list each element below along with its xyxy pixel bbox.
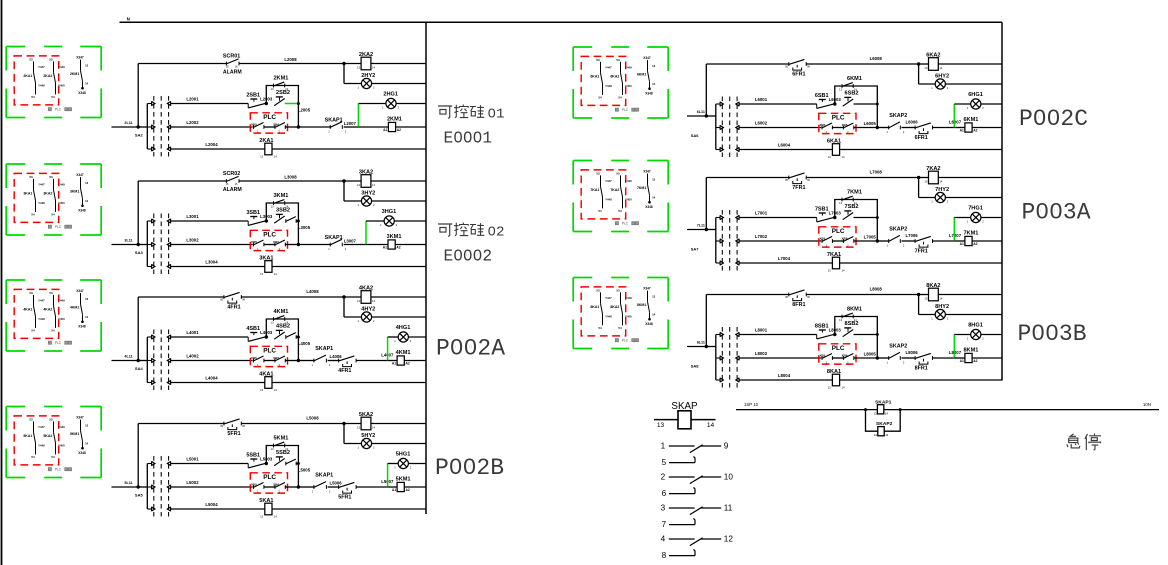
- wire HY branch horizontal: [344, 200, 361, 202]
- lamp 4HY2 (alarm indicator): [361, 312, 371, 322]
- svg-text:Y447: Y447: [605, 66, 612, 70]
- contact 4FR1 row A (thermal NC): [224, 292, 241, 303]
- wire coil 4KM1 to bus: [404, 360, 426, 362]
- svg-text:X348: X348: [78, 325, 86, 329]
- wire SKAP1 to lamp node: [344, 126, 359, 128]
- svg-text:14: 14: [939, 179, 942, 183]
- svg-text:Y450: Y450: [58, 317, 65, 321]
- svg-text:6: 6: [662, 489, 667, 498]
- svg-text:4KM1: 4KM1: [273, 309, 288, 315]
- svg-text:13: 13: [652, 64, 656, 68]
- svg-text:L8006: L8006: [906, 350, 919, 355]
- contact SKAP pole lower terminal 6: [669, 488, 695, 494]
- svg-text:53: 53: [616, 171, 620, 175]
- title P002C zero fix: [1038, 115, 1054, 119]
- wire L3001 row B: [171, 220, 248, 222]
- svg-text:A2: A2: [406, 488, 410, 492]
- PLC output contact 1: [254, 240, 264, 246]
- wire to coil 8KM1: [954, 357, 965, 359]
- wire L2002 row C: [171, 126, 253, 128]
- svg-text:A2: A2: [396, 246, 400, 250]
- wire vertical feed to row A: [137, 181, 139, 245]
- wire SKAP coil right lead: [691, 419, 716, 421]
- wire lamp branch horizontal: [388, 463, 399, 465]
- svg-text:6L11: 6L11: [697, 110, 705, 114]
- wire to coil 3KM1: [366, 244, 388, 246]
- PLC inter-contact wire: [264, 244, 275, 246]
- wire L3002 row C: [171, 244, 253, 246]
- contact 2KA2 aux to PLC input: [43, 57, 65, 99]
- svg-text:13: 13: [828, 386, 831, 390]
- svg-text:L2005: L2005: [298, 108, 311, 113]
- node row A junction: [917, 62, 920, 65]
- contact SKAP1 (NO): [314, 355, 327, 362]
- svg-text:L4004: L4004: [205, 376, 218, 381]
- svg-text:SA4: SA4: [135, 366, 144, 371]
- cabinet boundary bracket (green) block 7: [573, 161, 668, 232]
- svg-text:5: 5: [662, 458, 667, 467]
- title 01 zero fix: [491, 111, 493, 113]
- lamp 6HG1 (green indicator): [971, 99, 981, 109]
- svg-text:Y450: Y450: [58, 444, 65, 448]
- wire row B to branch vertical: [854, 217, 878, 219]
- svg-text:14: 14: [652, 195, 656, 199]
- connector linkage dashed lines: [154, 214, 169, 275]
- svg-text:A2: A2: [973, 359, 977, 363]
- svg-text:SA2: SA2: [135, 132, 144, 137]
- bus N right-column vertical rail: [1001, 22, 1003, 380]
- title 可控硅01 block1: [438, 105, 505, 123]
- svg-text:5HY2: 5HY2: [361, 433, 375, 439]
- coil 8KA1 (interface relay): [832, 374, 839, 386]
- wire lamp branch vertical (green): [365, 221, 367, 245]
- svg-text:X347: X347: [643, 170, 651, 174]
- wire row A from feed: [138, 296, 224, 298]
- svg-text:L3002: L3002: [186, 237, 199, 242]
- svg-text:L2007: L2007: [344, 121, 357, 126]
- wire row A to junction: [806, 294, 918, 296]
- svg-text:L8002: L8002: [755, 351, 768, 356]
- wire HY branch horizontal: [919, 314, 936, 316]
- contact 6KA2 aux to PLC input: [610, 58, 632, 100]
- wire 6FR1 to lamp node: [933, 127, 955, 129]
- connector pole row C: [147, 485, 170, 490]
- PLC input box (red dashed) block 3: [14, 173, 59, 222]
- wire coil 6KM1 to bus: [972, 127, 1002, 129]
- node junction before 3SB2: [265, 219, 268, 222]
- contact 3KM1 (NO aux): [274, 200, 285, 205]
- svg-text:1SP 10: 1SP 10: [744, 402, 759, 407]
- svg-text:SA6: SA6: [691, 133, 700, 138]
- svg-text:Y447: Y447: [38, 183, 45, 187]
- wire HY branch vertical: [343, 181, 345, 201]
- svg-text:P002A: P002A: [436, 336, 505, 362]
- node junction 5L11: [137, 485, 140, 488]
- contact SKAP2 (NO): [889, 122, 901, 129]
- svg-text:13: 13: [657, 422, 665, 429]
- svg-text:Y448: Y448: [38, 444, 45, 448]
- svg-text:PLC: PLC: [832, 228, 845, 235]
- svg-text:14: 14: [85, 81, 89, 85]
- wire vertical feed to row A: [705, 295, 707, 347]
- connector pole row D: [147, 264, 170, 269]
- wire L2004 row D: [171, 148, 265, 150]
- coil 7KA1 (interface relay): [832, 257, 839, 269]
- contact 5KA2 aux to PLC input: [43, 417, 65, 459]
- wire lamp 2HY2 to bus: [372, 83, 426, 85]
- label to-PLC note block 7: [615, 222, 638, 226]
- svg-text:7KM1: 7KM1: [847, 190, 862, 196]
- wire HY branch vertical: [343, 424, 345, 444]
- svg-text:9: 9: [724, 442, 729, 451]
- cabinet boundary bracket (green) block 3: [6, 164, 101, 235]
- lamp 8HY2 (alarm indicator): [935, 309, 945, 319]
- svg-text:3SB1: 3SB1: [246, 210, 260, 216]
- svg-text:5FR1: 5FR1: [338, 495, 351, 501]
- wire junction to coil 6KA2: [919, 63, 929, 65]
- svg-text:13: 13: [260, 388, 263, 392]
- node junction before 4SB2: [265, 335, 268, 338]
- coil 4KA2 (alarm relay): [361, 291, 371, 304]
- svg-text:54: 54: [31, 213, 35, 217]
- svg-text:Y450: Y450: [58, 84, 65, 88]
- wire SKAP2 parallel branch: [866, 410, 901, 432]
- wire SKAP1 to 5FR1: [328, 486, 339, 488]
- wire row C junction to rail: [138, 244, 147, 246]
- svg-text:8KM1: 8KM1: [847, 307, 862, 313]
- contact SKAP pole lower terminal 7: [669, 519, 695, 525]
- svg-text:X347: X347: [76, 56, 84, 60]
- wire stub to rail: [706, 346, 716, 348]
- svg-text:L3001: L3001: [186, 214, 199, 219]
- svg-text:14: 14: [274, 388, 277, 392]
- wire 5L11 feed stub: [112, 486, 139, 488]
- svg-text:SA8: SA8: [691, 363, 700, 368]
- coil 7KM1 (contactor): [965, 236, 972, 245]
- node junction before 2SB2: [265, 102, 268, 105]
- node SKAP branch left: [864, 408, 867, 411]
- pushbutton 5SB2 (NO start): [274, 457, 285, 466]
- connector linkage dashed lines: [722, 327, 737, 388]
- coil 2KM1 (contactor): [388, 122, 395, 131]
- contact 7FR1 row A (thermal NC): [789, 173, 806, 184]
- svg-text:14: 14: [85, 315, 89, 319]
- wire row A from feed: [706, 177, 789, 179]
- contact aux on row B: [286, 459, 296, 465]
- node row A junction: [342, 179, 345, 182]
- wire 7KM1 branch: [835, 200, 878, 242]
- svg-text:A2: A2: [973, 129, 977, 133]
- PLC input box (red dashed) block 8: [581, 287, 626, 336]
- contact SKAP2 (NO): [889, 235, 901, 243]
- wire HY branch vertical: [343, 64, 345, 84]
- svg-text:14: 14: [85, 441, 89, 445]
- contact 8KM1 (NO aux): [842, 313, 853, 318]
- wire 4L11 feed stub: [112, 360, 139, 362]
- wire junction to coil 5KA2: [344, 423, 361, 425]
- coil SKAP2: [878, 427, 884, 436]
- wire 7L11 feed stub: [687, 229, 706, 231]
- svg-text:14: 14: [939, 66, 942, 70]
- svg-text:8SB1: 8SB1: [815, 324, 829, 330]
- svg-text:ALARM: ALARM: [223, 187, 242, 193]
- svg-text:P002B: P002B: [435, 455, 504, 481]
- svg-text:14: 14: [274, 515, 277, 519]
- node junction 3L11: [137, 243, 140, 246]
- PLC output contact 2: [275, 483, 285, 489]
- svg-text:13: 13: [828, 269, 831, 273]
- wire lamp branch horizontal: [954, 103, 970, 105]
- svg-text:14: 14: [842, 155, 845, 159]
- svg-text:4KA2: 4KA2: [43, 307, 52, 311]
- svg-text:X348: X348: [645, 205, 653, 209]
- contact 8KM1 aux to terminals: [637, 287, 656, 326]
- wire L6001 row B: [739, 103, 816, 105]
- connector pole row B: [147, 101, 170, 106]
- svg-text:L3005: L3005: [298, 225, 311, 230]
- svg-text:SKAP1: SKAP1: [315, 346, 333, 352]
- wire vertical feed to row A: [137, 424, 139, 488]
- svg-text:Y450: Y450: [58, 201, 65, 205]
- PLC output contact 1: [254, 483, 264, 489]
- coil 5KA2 (alarm relay): [361, 417, 371, 430]
- svg-text:X347: X347: [76, 289, 84, 293]
- title E0002 zero fix: [457, 254, 478, 257]
- connector pole row C: [716, 356, 739, 361]
- svg-text:10N: 10N: [1143, 402, 1151, 407]
- contact SKAP pole 1-9: [669, 445, 721, 453]
- bus N top horizontal wire: [120, 21, 1003, 23]
- contact aux on row B: [286, 333, 296, 339]
- wire lamp branch vertical (green): [387, 337, 389, 361]
- svg-text:4HY2: 4HY2: [361, 306, 375, 312]
- svg-text:4HG1: 4HG1: [396, 325, 411, 331]
- svg-text:3: 3: [661, 504, 666, 513]
- wire SKAP1 to lamp node: [344, 244, 366, 246]
- svg-text:54: 54: [618, 209, 622, 213]
- wire 5FR1 to lamp node: [356, 486, 388, 488]
- wire 8KM1 branch: [835, 317, 878, 359]
- PLC interface box (red dashed): [250, 230, 287, 250]
- wire lamp to bus: [409, 336, 427, 338]
- svg-text:8KA2: 8KA2: [610, 305, 619, 309]
- svg-text:SA3: SA3: [135, 250, 144, 255]
- wire row A to junction: [806, 63, 918, 65]
- svg-text:L6001: L6001: [755, 97, 768, 102]
- svg-text:53: 53: [29, 417, 33, 421]
- svg-text:ALARM: ALARM: [223, 69, 242, 75]
- wire row B to branch vertical: [296, 336, 299, 338]
- PLC output contact 1: [822, 354, 832, 360]
- pushbutton 8SB1 (NC stop): [817, 330, 835, 339]
- connector pole row D: [716, 378, 739, 383]
- node SKAP branch right: [899, 408, 902, 411]
- wire coil 6KA2 to bus: [938, 63, 1002, 65]
- connector pole row D: [716, 261, 739, 266]
- node junction 4L11: [137, 359, 140, 362]
- wire left rail: [715, 218, 717, 264]
- wire to coil 2KM1: [358, 126, 388, 128]
- connector pole row C: [716, 125, 739, 130]
- contact SKAP pole lower terminal 5: [669, 457, 695, 463]
- contact 6KM1 (NO aux): [842, 83, 853, 88]
- connector pole row C: [147, 358, 170, 363]
- cabinet boundary bracket (green) block 8: [573, 278, 668, 349]
- node junction 6L11: [705, 114, 708, 117]
- contact 3KA2 aux to PLC input: [43, 175, 65, 217]
- svg-text:Y448: Y448: [605, 198, 612, 202]
- wire to SKAP1: [298, 126, 330, 128]
- wire L5004 row D: [171, 508, 265, 510]
- svg-text:6KA2: 6KA2: [610, 74, 619, 78]
- svg-text:8HY2: 8HY2: [935, 304, 949, 310]
- PLC output contact 1: [822, 237, 832, 243]
- svg-text:13: 13: [652, 177, 656, 181]
- node branch row B junction: [876, 333, 879, 336]
- svg-text:L6007: L6007: [949, 119, 962, 124]
- svg-text:L7008: L7008: [870, 170, 883, 175]
- connector pole row D: [147, 147, 170, 152]
- svg-text:13: 13: [260, 515, 263, 519]
- wire coil 8KM1 to bus: [972, 357, 1002, 359]
- wire 3KM1 branch: [266, 203, 298, 245]
- wire row B to branch vertical: [296, 463, 299, 465]
- wire lamp 5HY2 to bus: [372, 443, 426, 445]
- contact SKAP pole lower terminal 8: [669, 550, 695, 556]
- contact 7KA1 aux to PLC input: [590, 171, 612, 213]
- svg-text:L4005: L4005: [298, 341, 311, 346]
- node junction before 7SB2: [833, 216, 836, 219]
- node branch row B junction: [876, 216, 879, 219]
- wire lamp to bus: [981, 217, 1002, 219]
- svg-text:5HG1: 5HG1: [396, 451, 411, 457]
- wire junction to coil 3KA2: [344, 180, 361, 182]
- label to-PLC note block 3: [48, 225, 71, 229]
- svg-text:E0001: E0001: [444, 130, 493, 148]
- PLC inter-contact wire: [832, 240, 843, 242]
- svg-text:54: 54: [598, 96, 602, 100]
- svg-text:7HY2: 7HY2: [935, 187, 949, 193]
- lamp 3HY2 (alarm indicator): [361, 196, 371, 206]
- wire lamp branch vertical (green): [387, 464, 389, 488]
- node branch row B junction: [297, 336, 300, 339]
- svg-text:14: 14: [885, 411, 889, 415]
- svg-text:4SB1: 4SB1: [246, 326, 260, 332]
- svg-text:13: 13: [85, 297, 89, 301]
- node junction 2L11: [137, 125, 140, 128]
- connector pole row B: [147, 461, 170, 466]
- wire coil 8KA2 to bus: [938, 294, 1002, 296]
- connector pole row B: [716, 332, 739, 337]
- cabinet boundary bracket (green) block 5: [6, 407, 101, 478]
- wire L2001 row B: [171, 103, 248, 105]
- label to-PLC note block 8: [615, 339, 638, 343]
- connector pole row C: [147, 125, 170, 130]
- wire lamp to bus: [396, 103, 426, 105]
- svg-text:8FR1: 8FR1: [792, 302, 805, 308]
- svg-text:5FR1: 5FR1: [227, 431, 240, 437]
- lamp 3HG1 (green indicator): [384, 216, 394, 226]
- svg-text:L4001: L4001: [186, 330, 199, 335]
- wire HY branch horizontal: [919, 197, 936, 199]
- svg-text:10: 10: [724, 473, 734, 482]
- contact 6KA1 aux to PLC input: [590, 58, 612, 100]
- svg-text:PLC: PLC: [55, 108, 62, 112]
- svg-text:14: 14: [707, 422, 715, 429]
- PLC interface box (red dashed): [250, 473, 287, 493]
- svg-text:14: 14: [372, 299, 375, 303]
- svg-text:L6008: L6008: [870, 56, 883, 61]
- wire left rail: [715, 335, 717, 381]
- svg-text:53: 53: [49, 57, 53, 61]
- svg-text:Y448: Y448: [605, 315, 612, 319]
- svg-text:A2: A2: [973, 242, 977, 246]
- title E0001 zero fix: [457, 136, 478, 139]
- contact SKAP1 (NO): [314, 482, 327, 489]
- wire emergency stop line: [736, 409, 1159, 411]
- coil SKAP1: [877, 405, 883, 414]
- wire row A to junction: [241, 423, 344, 425]
- contact 7KA2 aux to PLC input: [610, 171, 632, 213]
- wire to coil 4KM1: [388, 360, 398, 362]
- wire row B green segment: [285, 103, 299, 105]
- bus N left-column vertical rail: [425, 22, 427, 514]
- svg-text:14: 14: [885, 433, 889, 437]
- contact 5FR1 row C (thermal NC): [339, 482, 356, 493]
- svg-text:Y448: Y448: [38, 84, 45, 88]
- svg-text:E0002: E0002: [444, 248, 493, 266]
- contact SKAP1 (NO): [330, 239, 342, 246]
- svg-text:2KA1: 2KA1: [23, 74, 32, 78]
- wire HY branch horizontal: [344, 83, 361, 85]
- pushbutton 6SB1 (NC stop): [817, 100, 835, 109]
- wire coil 5KA2 to bus: [371, 423, 426, 425]
- contact SCR01 alarm (NO): [226, 59, 239, 66]
- svg-text:13: 13: [85, 63, 89, 67]
- svg-text:54: 54: [618, 326, 622, 330]
- wire coil 2KM1 to bus: [396, 126, 426, 128]
- wire SKAP2 to 7FR1: [902, 240, 916, 242]
- svg-text:54: 54: [31, 329, 35, 333]
- wire 5KM1 branch: [266, 446, 298, 488]
- label to-PLC note block 2: [48, 108, 71, 112]
- pushbutton 6SB2 (NO start): [843, 97, 854, 106]
- node row A junction: [342, 295, 345, 298]
- svg-text:L3008: L3008: [284, 174, 297, 179]
- svg-text:L8008: L8008: [870, 287, 883, 292]
- svg-text:6SB1: 6SB1: [815, 93, 829, 99]
- svg-text:Y448: Y448: [38, 317, 45, 321]
- wire row A from feed: [138, 180, 226, 182]
- contact 4KM1 aux to terminals: [70, 289, 89, 328]
- title 02 zero fix: [491, 229, 493, 231]
- contact 5KM1 aux to terminals: [70, 416, 89, 455]
- PLC output contact 2: [843, 354, 853, 360]
- pushbutton 8SB2 (NO start): [843, 328, 854, 337]
- PLC output contact 1: [254, 123, 264, 129]
- node branch row B junction: [297, 220, 300, 223]
- svg-text:L7001: L7001: [755, 210, 768, 215]
- svg-text:14: 14: [372, 65, 375, 69]
- svg-text:SKAP2: SKAP2: [889, 113, 907, 119]
- svg-text:7L11: 7L11: [697, 223, 705, 227]
- contact SKAP pole 4-12: [669, 538, 721, 546]
- wire vertical feed to row A: [705, 178, 707, 230]
- svg-text:Y449: Y449: [625, 179, 632, 183]
- svg-text:2KM1: 2KM1: [70, 72, 79, 76]
- svg-text:13: 13: [924, 296, 927, 300]
- svg-text:13: 13: [357, 183, 360, 187]
